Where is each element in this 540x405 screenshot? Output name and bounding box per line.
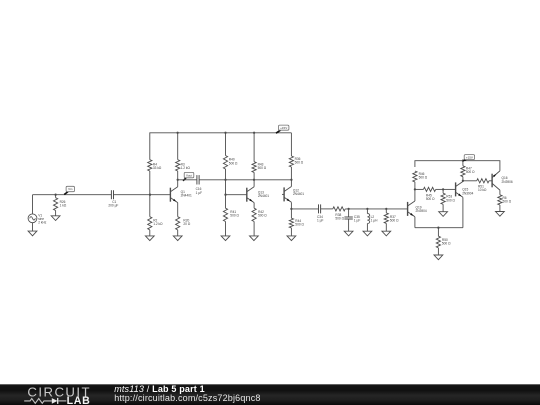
svg-text:1 µF: 1 µF [196, 191, 202, 195]
svg-text:1 µF: 1 µF [354, 219, 360, 223]
svg-text:500 Ω: 500 Ω [335, 217, 344, 221]
ground (R2) [145, 236, 154, 241]
svg-text:+15V: +15V [466, 155, 473, 159]
resistor R37 [384, 209, 399, 231]
svg-text:500 Ω: 500 Ω [466, 170, 475, 174]
svg-text:Vin: Vin [68, 187, 73, 191]
wire (to Q15 base) [443, 188, 455, 190]
wire (Q12 emitter to C34) [291, 208, 318, 210]
svg-text:500 Ω: 500 Ω [295, 161, 304, 165]
svg-text:2N4401: 2N4401 [181, 194, 192, 198]
ground (R42) [250, 236, 259, 241]
net flag Vout (Vout) [183, 172, 194, 180]
wire (+15V rail, stage 1-2) [150, 133, 292, 160]
svg-text:2N3904: 2N3904 [416, 209, 427, 213]
svg-text:LAB: LAB [67, 395, 91, 405]
svg-text:1 µH: 1 µH [371, 219, 378, 223]
resistor R2 [148, 195, 163, 236]
svg-text:500 Ω: 500 Ω [258, 166, 267, 170]
capacitor C35 [344, 209, 360, 231]
svg-text:1.2 kΩ: 1.2 kΩ [153, 222, 163, 226]
svg-text:500 Ω: 500 Ω [295, 223, 304, 227]
wire (Q16 collector stub) [499, 190, 501, 195]
node (R26 tap) [54, 194, 56, 196]
node (C35 tap) [347, 208, 349, 210]
wire (Q12 base stub) [282, 193, 284, 195]
svg-text:2 kHz: 2 kHz [38, 220, 47, 224]
ground (R37) [382, 231, 391, 236]
resistor R6 [498, 195, 512, 212]
resistor R45 [415, 187, 443, 201]
wire (C1 to Q1 base) [114, 194, 171, 196]
node (Q12 collector) [290, 179, 292, 181]
svg-text:2N3906: 2N3906 [502, 180, 513, 184]
wire (R38 to Q19 base) [345, 208, 407, 210]
wire (V1 to input node) [32, 195, 34, 214]
node (Q1 collector / Vout) [177, 179, 179, 181]
wire (C34 to R38) [321, 208, 333, 210]
resistor R26 [54, 195, 67, 216]
CircuitLab logo [0, 384, 110, 405]
svg-text:2N4401: 2N4401 [293, 192, 304, 196]
svg-text:500 Ω: 500 Ω [258, 214, 267, 218]
node (rail / R47) [462, 160, 464, 162]
svg-text:500 Ω: 500 Ω [230, 214, 239, 218]
svg-text:500 Ω: 500 Ω [426, 197, 435, 201]
capacitor C16 [196, 175, 202, 195]
svg-text:500 Ω: 500 Ω [446, 198, 455, 202]
resistor R38 [333, 207, 345, 221]
ground (R26) [51, 216, 60, 221]
svg-text:500 Ω: 500 Ω [442, 242, 451, 246]
wire (input signal) [33, 194, 112, 196]
resistor R43 [252, 133, 267, 180]
wire (+15V rail, output stage) [415, 161, 500, 171]
resistor R3 [176, 133, 191, 180]
node (Q13 base tap) [224, 194, 226, 196]
resistor R51 [463, 179, 492, 193]
net flag +15V (+15V rail1) [276, 125, 289, 133]
svg-text:500 Ω: 500 Ω [503, 200, 512, 204]
inductor L2 [367, 209, 378, 231]
transistor Q16 [492, 171, 513, 190]
node (Q13 base node top) [224, 179, 226, 181]
footer bar [0, 384, 540, 405]
svg-text:500 Ω: 500 Ω [229, 161, 238, 165]
capacitor C1 [108, 190, 118, 207]
ground (V1) [28, 231, 37, 236]
svg-text:Vout: Vout [186, 173, 192, 177]
resistor R4 [148, 160, 162, 195]
svg-text:500 Ω: 500 Ω [419, 176, 428, 180]
node (rail / R3) [176, 132, 178, 134]
ground (L2) [363, 231, 372, 236]
node (Q15 base tap) [442, 188, 444, 190]
wire (col C) [225, 180, 227, 195]
svg-text:10 kΩ: 10 kΩ [478, 188, 487, 192]
wire (Vout to C16) [178, 179, 197, 181]
ground (C35) [344, 231, 353, 236]
wire (V1 ground lead) [32, 223, 34, 231]
svg-text:1 kΩ: 1 kΩ [60, 204, 67, 208]
node (Q19 collector) [414, 188, 416, 190]
resistor R47 [461, 161, 475, 181]
resistor R36 [289, 133, 304, 180]
svg-text:200 µF: 200 µF [108, 204, 118, 208]
wire (C16 coupling to stage 2) [199, 179, 291, 181]
ground (R53) [439, 212, 448, 217]
wire (Q19/Q15 emitter bus) [415, 227, 463, 229]
resistor R50 [436, 228, 451, 255]
voltage source V1 [28, 213, 47, 224]
svg-text:33 kΩ: 33 kΩ [153, 166, 162, 170]
capacitor C34 [317, 204, 323, 222]
svg-text:+15V: +15V [280, 126, 287, 130]
svg-text:20 Ω: 20 Ω [183, 222, 190, 226]
node (Q15 collector / R51) [462, 180, 464, 182]
ground (R41) [221, 236, 230, 241]
resistor R41 [223, 195, 239, 236]
ground (R20) [173, 236, 182, 241]
svg-text:500 Ω: 500 Ω [390, 219, 399, 223]
svg-text:1 µF: 1 µF [317, 218, 323, 222]
node (rail / R40) [224, 132, 226, 134]
transistor Q12 [284, 180, 304, 209]
resistor R20 [176, 203, 191, 236]
ground (R44) [287, 236, 296, 241]
net flag Vin (Vin) [64, 186, 74, 194]
node (Q1 base divider) [149, 194, 151, 196]
node (Q13 collector) [253, 179, 255, 181]
resistor R44 [289, 209, 304, 236]
svg-text:2N4401: 2N4401 [258, 194, 269, 198]
resistor R40 [223, 133, 238, 180]
transistor Q1 [170, 180, 192, 203]
resistor R42 [252, 203, 267, 236]
resistor R46 [413, 171, 428, 189]
ground (R50) [434, 255, 443, 260]
svg-text:1.2 kΩ: 1.2 kΩ [181, 166, 191, 170]
node (R50 tap) [437, 227, 439, 229]
transistor Q13 [247, 180, 269, 203]
node (L2 tap) [366, 208, 368, 210]
node (Q12 emitter) [290, 208, 292, 210]
node (rail / R43) [253, 132, 255, 134]
resistor R53 [441, 189, 456, 211]
transistor Q19 [408, 189, 427, 227]
node (R37 tap) [385, 208, 387, 210]
svg-text:2N3904: 2N3904 [462, 191, 473, 195]
wire (to Q13 base) [226, 194, 247, 196]
transistor Q15 [456, 181, 474, 228]
ground (R6) [496, 212, 505, 217]
net flag +15V (+15V rail2) [463, 155, 475, 161]
